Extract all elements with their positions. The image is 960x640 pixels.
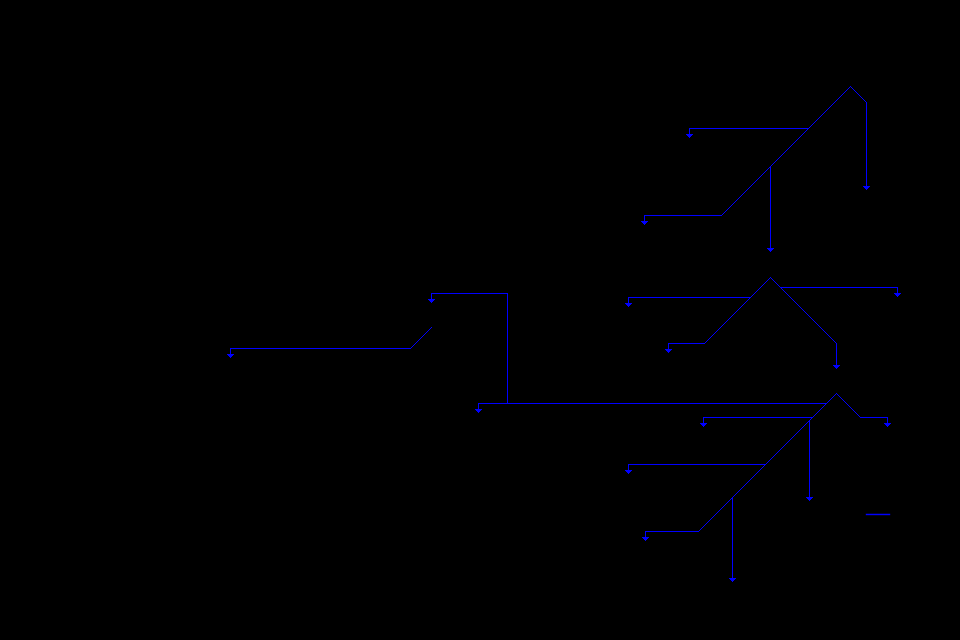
wire edge A4 vertical: [770, 166, 771, 248]
wire edge C4 stub: [478, 404, 479, 409]
wire edge C1 stub: [887, 418, 888, 423]
wire edge D1 vertical: [507, 293, 508, 404]
wire edge C4 horizontal (long): [478, 403, 827, 404]
wire diagonal PB down-left: [704, 277, 771, 344]
wire edge A2 horizontal: [644, 215, 722, 216]
wire edge A3 horizontal: [689, 128, 809, 129]
arrowhead C6: [729, 578, 736, 582]
wire edge B3 stub: [668, 344, 669, 349]
arrowhead A2: [641, 221, 648, 225]
wire edge E1 stub: [230, 349, 231, 354]
wire edge B1 stub: [897, 288, 898, 293]
wire edge C3 vertical: [809, 420, 810, 497]
arrowhead B2: [625, 303, 632, 307]
wire edge B4 vertical: [836, 343, 837, 365]
wire diagonal PB down-right: [770, 277, 837, 344]
arrowhead D1: [428, 299, 435, 303]
wire edge C7 stub: [645, 532, 646, 537]
wire edge B2 stub: [628, 298, 629, 303]
wire edge A1 vertical: [866, 102, 867, 186]
wire edge C1 horizontal: [860, 417, 888, 418]
wire diagonal PA down-left: [721, 86, 851, 216]
wire edge C5 stub: [628, 465, 629, 470]
wire edge C7 horizontal: [645, 531, 699, 532]
wire edge A3 stub: [689, 129, 690, 134]
wire edge E1 diagonal: [410, 327, 432, 349]
arrowhead C1: [884, 423, 891, 427]
wire edge C6 vertical: [732, 497, 733, 578]
wire diagonal PA down-right: [850, 86, 867, 103]
arrowhead A3: [686, 134, 693, 138]
wire edge C2 stub: [703, 418, 704, 423]
wire edge F (short standalone segment): [866, 514, 890, 515]
wire edge B2 horizontal: [628, 297, 751, 298]
arrowhead C3: [806, 497, 813, 501]
wire diagonal PC down-right: [836, 393, 861, 418]
arrowhead E1: [227, 354, 234, 358]
arrowhead C4: [475, 409, 482, 413]
arrowhead B3: [665, 349, 672, 353]
wire diagonal PC down-left: [698, 393, 837, 532]
wire edge D1 horizontal: [431, 293, 508, 294]
wire edge C5 horizontal: [628, 464, 766, 465]
arrowhead B1: [894, 293, 901, 297]
node PC (subtree root, invisible label): [0, 0, 1, 1]
arrowhead B4: [833, 365, 840, 369]
arrowhead C7: [642, 537, 649, 541]
node PA (tree root, invisible label): [0, 0, 1, 1]
arrowhead A4: [767, 248, 774, 252]
wire edge B3 horizontal: [668, 343, 705, 344]
wire edge C2 horizontal: [703, 417, 813, 418]
wire edge B1 horizontal: [780, 287, 898, 288]
wire edge E1 horizontal: [230, 348, 411, 349]
arrowhead A1: [863, 186, 870, 190]
wire edge A2 stub: [644, 216, 645, 221]
arrowhead C5: [625, 470, 632, 474]
arrowhead C2: [700, 423, 707, 427]
wire edge D1 stub: [431, 294, 432, 299]
node PB (subtree root, invisible label): [0, 0, 1, 1]
